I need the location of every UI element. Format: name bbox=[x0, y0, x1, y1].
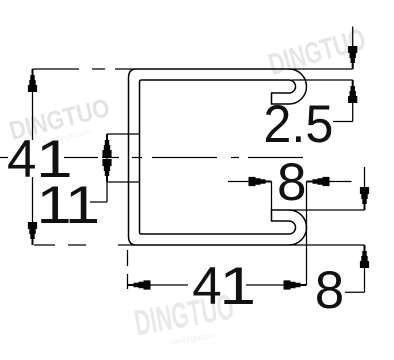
svg-text:1: 1 bbox=[219, 256, 256, 315]
svg-text:2.5: 2.5 bbox=[263, 95, 333, 154]
svg-text:4: 4 bbox=[192, 257, 221, 316]
svg-text:1: 1 bbox=[65, 176, 100, 235]
svg-text:8: 8 bbox=[315, 261, 344, 320]
svg-text:4: 4 bbox=[7, 130, 36, 189]
svg-text:8: 8 bbox=[277, 153, 306, 212]
